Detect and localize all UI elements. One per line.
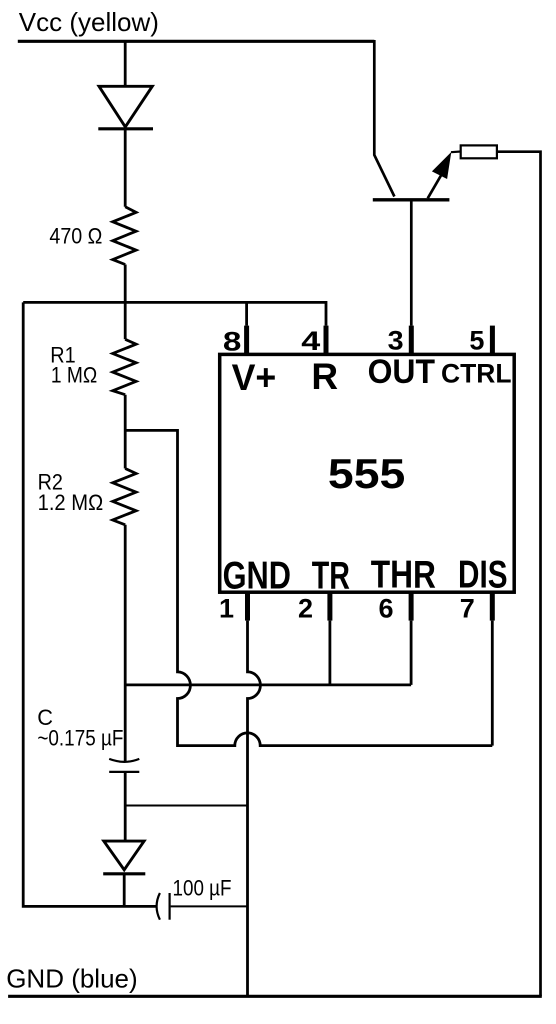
- wire node C horizontal (cap top to TR and THR): [125, 684, 411, 687]
- pin 1 stub: [245, 592, 250, 621]
- svg-text:7: 7: [460, 594, 475, 624]
- wire pin 1 to GND rail (with hop over node C wire): [248, 621, 261, 997]
- wire pin 2: [328, 621, 331, 685]
- svg-text:1.2 MΩ: 1.2 MΩ: [38, 490, 104, 515]
- diode D1: [98, 86, 153, 129]
- svg-text:OUT: OUT: [368, 353, 436, 391]
- resistor 470 ohm: [113, 207, 136, 265]
- fuse F1: [461, 145, 497, 158]
- svg-text:TR: TR: [312, 555, 350, 598]
- wire C2 to pin1 rail: [171, 905, 248, 907]
- wire GND rail: [8, 995, 542, 998]
- wire R1 to R2: [124, 395, 127, 469]
- wire D2 cathode: [123, 874, 126, 907]
- svg-text:1: 1: [219, 594, 234, 624]
- svg-text:2: 2: [298, 594, 313, 624]
- pin 4 stub: [324, 326, 329, 354]
- svg-text:Vcc (yellow): Vcc (yellow): [19, 7, 159, 37]
- wire pin 6: [410, 621, 413, 685]
- wire pin 7: [491, 621, 494, 746]
- svg-text:THR: THR: [371, 554, 436, 597]
- svg-text:555: 555: [328, 450, 405, 497]
- wire R3 to node A: [124, 265, 127, 340]
- wire cap C to D2: [124, 772, 127, 841]
- wire node B to DIS (via x=177.5 with hop over wire1): [125, 430, 492, 745]
- wire D1 cathode to 470 ohm resistor: [124, 130, 127, 207]
- svg-text:GND (blue): GND (blue): [6, 964, 137, 994]
- wire pin 8 link: [245, 302, 248, 325]
- svg-text:DIS: DIS: [458, 554, 508, 597]
- svg-text:3: 3: [388, 326, 404, 356]
- svg-text:4: 4: [301, 326, 320, 356]
- pin 8 stub: [244, 326, 249, 354]
- svg-text:GND: GND: [223, 555, 291, 598]
- pin 2 stub: [327, 592, 332, 621]
- svg-text:6: 6: [379, 594, 394, 624]
- svg-text:8: 8: [223, 327, 242, 357]
- wire Q1 base to pin 3: [410, 202, 413, 326]
- wire Vcc to Q1 collector: [374, 40, 394, 197]
- capacitor C2 100uF: [157, 893, 170, 920]
- capacitor C: [109, 759, 139, 772]
- wire cap bottom to pin 1 rail: [125, 805, 247, 807]
- svg-text:470 Ω: 470 Ω: [49, 224, 102, 249]
- wire left rail: [23, 302, 156, 906]
- resistor R2: [113, 469, 136, 525]
- wire Vcc rail: [18, 40, 375, 43]
- pin 3 stub: [409, 326, 414, 354]
- svg-text:100 µF: 100 µF: [173, 876, 232, 901]
- wire R2 to capacitor C: [124, 525, 127, 762]
- pin 5 stub: [490, 326, 495, 354]
- pin 6 stub: [409, 592, 414, 621]
- diode D2: [103, 841, 145, 874]
- resistor R1: [113, 339, 136, 394]
- svg-text:V+: V+: [232, 357, 277, 398]
- svg-text:5: 5: [469, 326, 484, 356]
- wire F1 to right rail: [497, 152, 541, 997]
- svg-text:~0.175 µF: ~0.175 µF: [37, 726, 123, 751]
- svg-text:R: R: [311, 356, 338, 397]
- pin 7 stub: [490, 592, 495, 621]
- wire D1 anode: [124, 41, 127, 85]
- wire node A horizontal (Vcc bus to pins 8 and 4): [23, 302, 326, 325]
- svg-text:CTRL: CTRL: [441, 359, 512, 389]
- transistor Q1: [373, 152, 461, 200]
- IC U1 555 timer body: [220, 354, 515, 592]
- svg-text:1 MΩ: 1 MΩ: [51, 362, 97, 387]
